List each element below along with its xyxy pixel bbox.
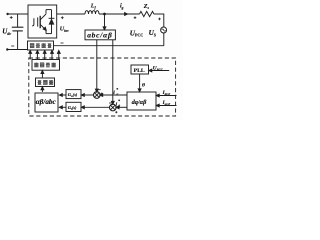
wire: gate signals (5 arrows): [29, 53, 31, 60]
label gate drive (pseudo CJK): [35, 63, 39, 68]
svg-text:Lf: Lf: [90, 4, 97, 10]
svg-text:*: *: [116, 87, 118, 92]
AC source Us: [161, 27, 167, 33]
box Gi(s): [66, 102, 81, 111]
box PLL: [131, 65, 149, 74]
svg-text:Gi(s): Gi(s): [68, 105, 77, 111]
svg-text:αβ/abc: αβ/abc: [36, 98, 57, 106]
svg-text:Iqref: Iqref: [162, 100, 171, 106]
svg-text:UPCC: UPCC: [130, 29, 144, 37]
wire: theta PLL to dq: [139, 74, 141, 90]
box modulator: [36, 78, 55, 87]
svg-text:abc/αβ: abc/αβ: [87, 31, 112, 40]
node: DC+ terminal dot: [6, 13, 8, 15]
label modulator (pseudo CJK): [37, 81, 41, 85]
label - dc: [11, 45, 14, 47]
label - uinv: [61, 42, 64, 44]
box dq/alphabeta: [127, 92, 156, 110]
wire: dq out A to S1: [102, 94, 127, 96]
inverter box U1: [28, 5, 57, 38]
label inverter module (pseudo CJK): [30, 44, 34, 48]
inductor Lf: [85, 11, 99, 14]
wire: bottom power rail: [54, 45, 164, 47]
wire: ig arrow on rail: [125, 13, 128, 16]
wire: ab/abc to modulator: [41, 89, 43, 92]
capacitor C (dc link): [17, 14, 19, 27]
wire: DC bottom rail: [7, 49, 28, 51]
label + us: [158, 18, 161, 20]
svg-text:α: α: [116, 93, 118, 97]
wire: DC top rail: [8, 13, 28, 15]
wire: idref in: [158, 95, 176, 97]
wire: iqref in: [158, 105, 176, 107]
wire: modulator to gate drive: [41, 73, 43, 78]
wire: Upcc into PLL: [151, 70, 169, 72]
resistor Zs: [140, 11, 154, 16]
wire: inverter output to inductor: [57, 13, 85, 15]
box abc/alphabeta: [85, 30, 115, 40]
wire: rail after Lf: [99, 13, 140, 15]
svg-text:β: β: [117, 104, 120, 108]
wire: Gu out: [62, 94, 67, 96]
svg-text:UPCC: UPCC: [153, 65, 164, 71]
node: DC- terminal dot: [6, 48, 8, 50]
svg-text:Gu(s): Gu(s): [68, 92, 78, 98]
wire: Gi out: [62, 106, 67, 108]
svg-text:Idref: Idref: [162, 90, 171, 96]
dashed control region: [29, 58, 176, 116]
wire: dq out B to S2: [118, 106, 127, 108]
wire: junction2 to Gi: [84, 106, 110, 108]
label + s1: [101, 93, 103, 95]
wire: source to bottom rail: [163, 33, 165, 46]
svg-text:ig: ig: [120, 4, 124, 10]
label box: inverter module: [28, 41, 54, 50]
box Gu(s): [66, 90, 81, 99]
wire: junction1 to Gu: [84, 94, 95, 96]
node: pickoff junction: [103, 13, 106, 16]
box alphabeta/abc: [35, 93, 58, 112]
label + upcc: [134, 17, 137, 19]
svg-text:*: *: [118, 99, 120, 104]
svg-text:θ: θ: [142, 83, 145, 89]
diode D1 (antiparallel): [51, 10, 53, 34]
svg-text:Uinv: Uinv: [60, 27, 69, 33]
wire: corner to source: [154, 13, 164, 15]
wire: drop to abc/ab box: [104, 14, 106, 28]
label - s1: [98, 89, 101, 91]
label + dc: [10, 17, 13, 19]
svg-text:PLL: PLL: [134, 68, 145, 74]
wire: drop2 from abc/ab to S2: [112, 40, 114, 103]
wire: drop1 from abc/ab to S1: [96, 40, 98, 90]
svg-text:US: US: [149, 29, 157, 37]
svg-text:dq/αβ: dq/αβ: [132, 99, 148, 106]
svg-text:Udc: Udc: [2, 28, 11, 36]
box gate drive: [32, 60, 60, 71]
label + uinv: [61, 17, 64, 19]
label + s2: [115, 111, 117, 113]
svg-text:Zs: Zs: [143, 4, 150, 10]
summing junction S2: [110, 104, 117, 111]
transistor IGBT: [32, 18, 34, 26]
summing junction S1: [94, 92, 101, 99]
label - s2: [109, 102, 112, 104]
